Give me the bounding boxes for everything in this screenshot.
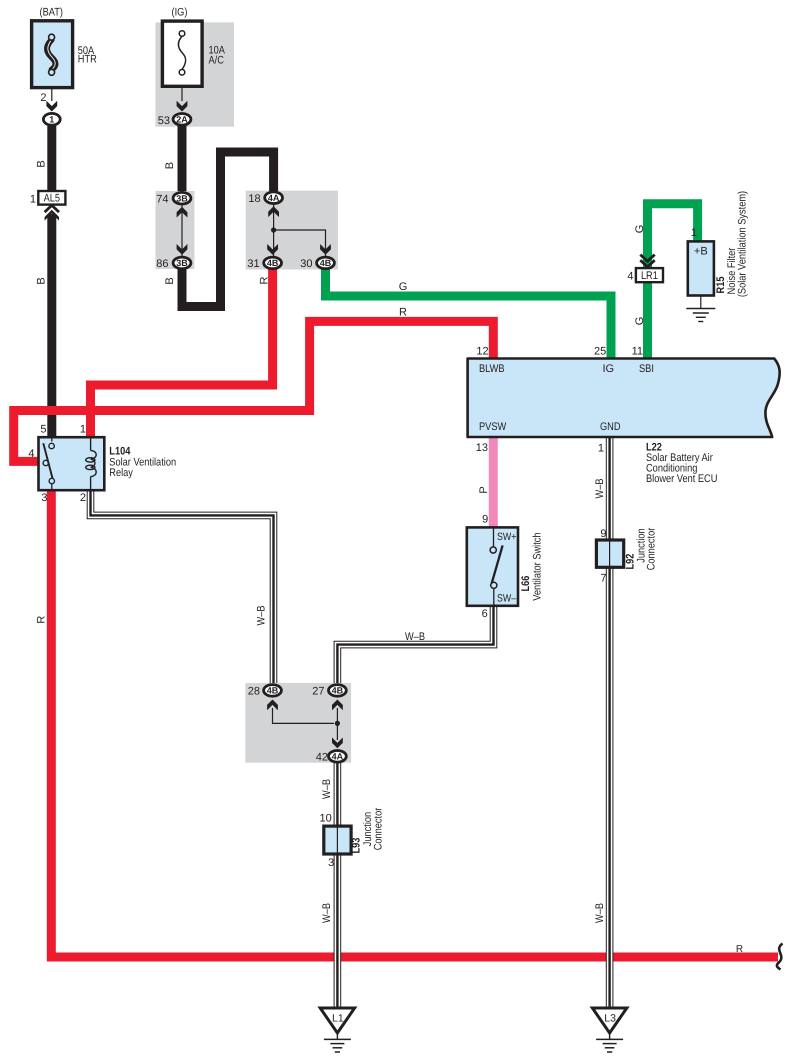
svg-text:4B: 4B bbox=[332, 686, 344, 696]
svg-text:(Solar Ventilation System): (Solar Ventilation System) bbox=[737, 191, 749, 297]
relay L104 Solar Ventilation Relay bbox=[39, 437, 105, 490]
svg-text:2A: 2A bbox=[176, 115, 188, 125]
wire: thin link 18/4A to junction dot bbox=[273, 204, 275, 230]
connector arrow below 28/4B bbox=[267, 700, 278, 711]
svg-text:1: 1 bbox=[691, 227, 697, 239]
svg-text:5: 5 bbox=[40, 423, 46, 435]
svg-text:G: G bbox=[634, 225, 646, 234]
svg-text:4A: 4A bbox=[268, 193, 280, 203]
wire: 28 to junction dot bbox=[273, 708, 335, 723]
svg-text:B: B bbox=[36, 160, 48, 167]
svg-text:3: 3 bbox=[328, 857, 334, 869]
svg-text:+B: +B bbox=[694, 246, 708, 258]
wire: thin link 74/3B to 86/3B bbox=[181, 205, 183, 256]
svg-text:12: 12 bbox=[476, 346, 488, 358]
wire R: ECU pin 12 BLWB up, left, down, to relay pin 4 bbox=[14, 321, 494, 461]
gray block: junction 3B area bbox=[156, 191, 195, 269]
svg-text:Relay: Relay bbox=[109, 467, 133, 479]
wire G: 30/4B down and right to ECU pin 25 IG bbox=[326, 268, 612, 359]
wire W-B: switch pin 6 to 27/4B bbox=[337, 606, 493, 683]
svg-text:G: G bbox=[399, 281, 408, 293]
svg-text:30: 30 bbox=[300, 258, 312, 270]
wire B: AL5 to relay pin 5 bbox=[47, 214, 56, 437]
svg-text:9: 9 bbox=[600, 528, 606, 540]
svg-text:9: 9 bbox=[482, 514, 488, 526]
wire W-B: relay pin 2 to 28/4B bbox=[91, 490, 274, 683]
svg-text:SW–: SW– bbox=[497, 593, 516, 605]
junction 74 (3B) bbox=[177, 207, 188, 218]
svg-text:Connector: Connector bbox=[646, 527, 658, 570]
junction 30 (4B) bbox=[317, 257, 335, 269]
svg-text:W–B: W–B bbox=[405, 631, 425, 643]
svg-text:HTR: HTR bbox=[78, 54, 97, 66]
wire P: ECU pin 13 PVSW to switch pin 9 bbox=[489, 437, 498, 527]
wire R: 31/4B down, left, to relay pin 1 bbox=[91, 268, 273, 437]
wire W-B: 42/4A through L93 to ground L1 bbox=[334, 763, 342, 1008]
svg-text:27: 27 bbox=[312, 686, 324, 698]
svg-text:R: R bbox=[736, 944, 743, 955]
gray block: IG fuse area bbox=[156, 22, 235, 126]
svg-text:IG: IG bbox=[603, 363, 615, 375]
svg-text:3: 3 bbox=[41, 492, 47, 504]
ground for R15 bbox=[700, 296, 702, 309]
svg-text:SBI: SBI bbox=[639, 363, 654, 375]
svg-text:18: 18 bbox=[248, 193, 260, 205]
connector arrow above 86/3B bbox=[177, 244, 188, 255]
connector arrow below 18/4A bbox=[268, 206, 279, 217]
svg-text:28: 28 bbox=[248, 686, 260, 698]
svg-text:2: 2 bbox=[80, 492, 86, 504]
node: junction dot bbox=[271, 227, 276, 232]
connector arrow below 27/4B bbox=[332, 700, 343, 711]
svg-text:6: 6 bbox=[482, 608, 488, 620]
wire: dot right and down to 30/4B bbox=[274, 230, 326, 256]
svg-text:R: R bbox=[258, 276, 270, 284]
svg-text:G: G bbox=[634, 317, 646, 326]
svg-text:2: 2 bbox=[40, 92, 46, 104]
connector arrow above 31/4B bbox=[267, 244, 278, 255]
junction 31 (4B) bbox=[264, 257, 282, 269]
wire: dot down to 31/4B bbox=[273, 230, 275, 256]
svg-text:7: 7 bbox=[600, 573, 606, 585]
svg-text:L93: L93 bbox=[351, 838, 363, 854]
connector arrow above 42/4A bbox=[332, 738, 343, 749]
junction 86 (3B) bbox=[173, 257, 191, 269]
wire B: 86/3B to 18/4A bbox=[182, 152, 274, 307]
svg-text:53: 53 bbox=[158, 115, 170, 127]
svg-text:25: 25 bbox=[594, 346, 606, 358]
ventilator switch L66 bbox=[467, 527, 518, 605]
wire G: ECU pin 11 SBI up through LR1 to R15 pin 1 bbox=[648, 204, 698, 359]
svg-text:11: 11 bbox=[632, 346, 643, 358]
gray block: junction 4B/4A area (bottom) bbox=[245, 683, 351, 763]
svg-text:4B: 4B bbox=[267, 258, 279, 268]
svg-text:1: 1 bbox=[49, 115, 54, 125]
svg-text:42: 42 bbox=[316, 751, 328, 763]
svg-text:13: 13 bbox=[476, 442, 488, 454]
wire B: fuse BAT to connector 1 bbox=[51, 75, 53, 101]
gray block: junction 4A/4B area (top) bbox=[246, 191, 338, 270]
svg-text:L66: L66 bbox=[520, 576, 532, 592]
ECU L22 Solar Battery Air Conditioning Blower Vent ECU bbox=[468, 359, 780, 438]
connector arrow below AL5 bbox=[45, 205, 59, 212]
svg-text:1: 1 bbox=[30, 193, 36, 205]
svg-text:Blower Vent ECU: Blower Vent ECU bbox=[646, 473, 717, 485]
wire B: fuse IG to connector 53/2A bbox=[181, 74, 183, 101]
svg-text:4: 4 bbox=[627, 270, 633, 282]
svg-text:1: 1 bbox=[80, 423, 86, 435]
ground L3 bbox=[592, 1008, 626, 1033]
svg-text:L1: L1 bbox=[332, 1013, 344, 1025]
wire R: relay pin 3 down and right to edge bbox=[51, 489, 778, 957]
connector 53 (2A) bbox=[173, 114, 191, 126]
connector 1 (oval) bbox=[43, 113, 60, 125]
svg-text:86: 86 bbox=[156, 258, 168, 270]
ground L1 bbox=[320, 1008, 354, 1033]
connector arrow above 53/2A bbox=[177, 101, 188, 112]
svg-text:31: 31 bbox=[247, 258, 259, 270]
relay coil bbox=[90, 437, 92, 450]
svg-text:4A: 4A bbox=[332, 752, 344, 762]
wire: 27 down through dot to 42/4A bbox=[336, 708, 338, 740]
connector arrow above LR1 bbox=[642, 255, 652, 263]
svg-text:10: 10 bbox=[320, 813, 332, 825]
svg-text:W–B: W–B bbox=[594, 479, 606, 499]
svg-text:4B: 4B bbox=[320, 258, 332, 268]
relay switch contacts bbox=[51, 437, 53, 441]
svg-text:W–B: W–B bbox=[321, 903, 333, 923]
svg-text:W–B: W–B bbox=[594, 903, 606, 923]
continuation squiggle bbox=[777, 944, 783, 970]
node: junction dot bottom bbox=[335, 721, 340, 726]
wire W-B: ECU pin 1 GND through L92 to ground L3 bbox=[606, 437, 614, 1008]
wire B: 2A to 3B bbox=[178, 126, 187, 191]
svg-text:W–B: W–B bbox=[256, 606, 268, 626]
svg-text:BLWB: BLWB bbox=[479, 363, 505, 375]
svg-text:W–B: W–B bbox=[321, 779, 333, 799]
svg-text:3B: 3B bbox=[176, 258, 188, 268]
svg-text:B: B bbox=[36, 277, 48, 284]
wire B: connector 1 to AL5 bbox=[47, 126, 56, 191]
fuse (IG) 10A A/C bbox=[162, 21, 202, 86]
svg-text:R: R bbox=[399, 307, 407, 319]
svg-text:(IG): (IG) bbox=[172, 6, 188, 18]
connector arrow above 30/4B bbox=[320, 244, 331, 255]
svg-text:1: 1 bbox=[598, 443, 604, 455]
svg-text:PVSW: PVSW bbox=[479, 421, 507, 433]
fuse (BAT) 50A HTR bbox=[32, 21, 73, 88]
svg-text:R: R bbox=[36, 616, 48, 624]
svg-text:3B: 3B bbox=[176, 193, 188, 203]
svg-text:4B: 4B bbox=[267, 686, 279, 696]
svg-text:4: 4 bbox=[28, 448, 34, 460]
svg-text:LR1: LR1 bbox=[641, 270, 658, 282]
svg-text:P: P bbox=[478, 486, 490, 493]
svg-text:(BAT): (BAT) bbox=[40, 6, 63, 18]
svg-text:Connector: Connector bbox=[373, 807, 385, 850]
junction 28 (4B) bbox=[264, 685, 282, 697]
junction 18 (4A) bbox=[265, 192, 283, 204]
svg-text:74: 74 bbox=[156, 193, 168, 205]
svg-text:AL5: AL5 bbox=[44, 193, 60, 205]
svg-text:Ventilator Switch: Ventilator Switch bbox=[532, 532, 544, 600]
junction 42 (4A) bbox=[329, 751, 347, 763]
svg-text:GND: GND bbox=[600, 421, 621, 433]
svg-text:SW+: SW+ bbox=[497, 531, 516, 543]
connector arrow above 1 bbox=[46, 101, 57, 112]
svg-text:B: B bbox=[164, 277, 176, 284]
junction 27 (4B) bbox=[329, 685, 347, 697]
svg-text:A/C: A/C bbox=[209, 55, 224, 67]
svg-text:B: B bbox=[164, 162, 176, 169]
svg-text:L3: L3 bbox=[604, 1013, 616, 1025]
